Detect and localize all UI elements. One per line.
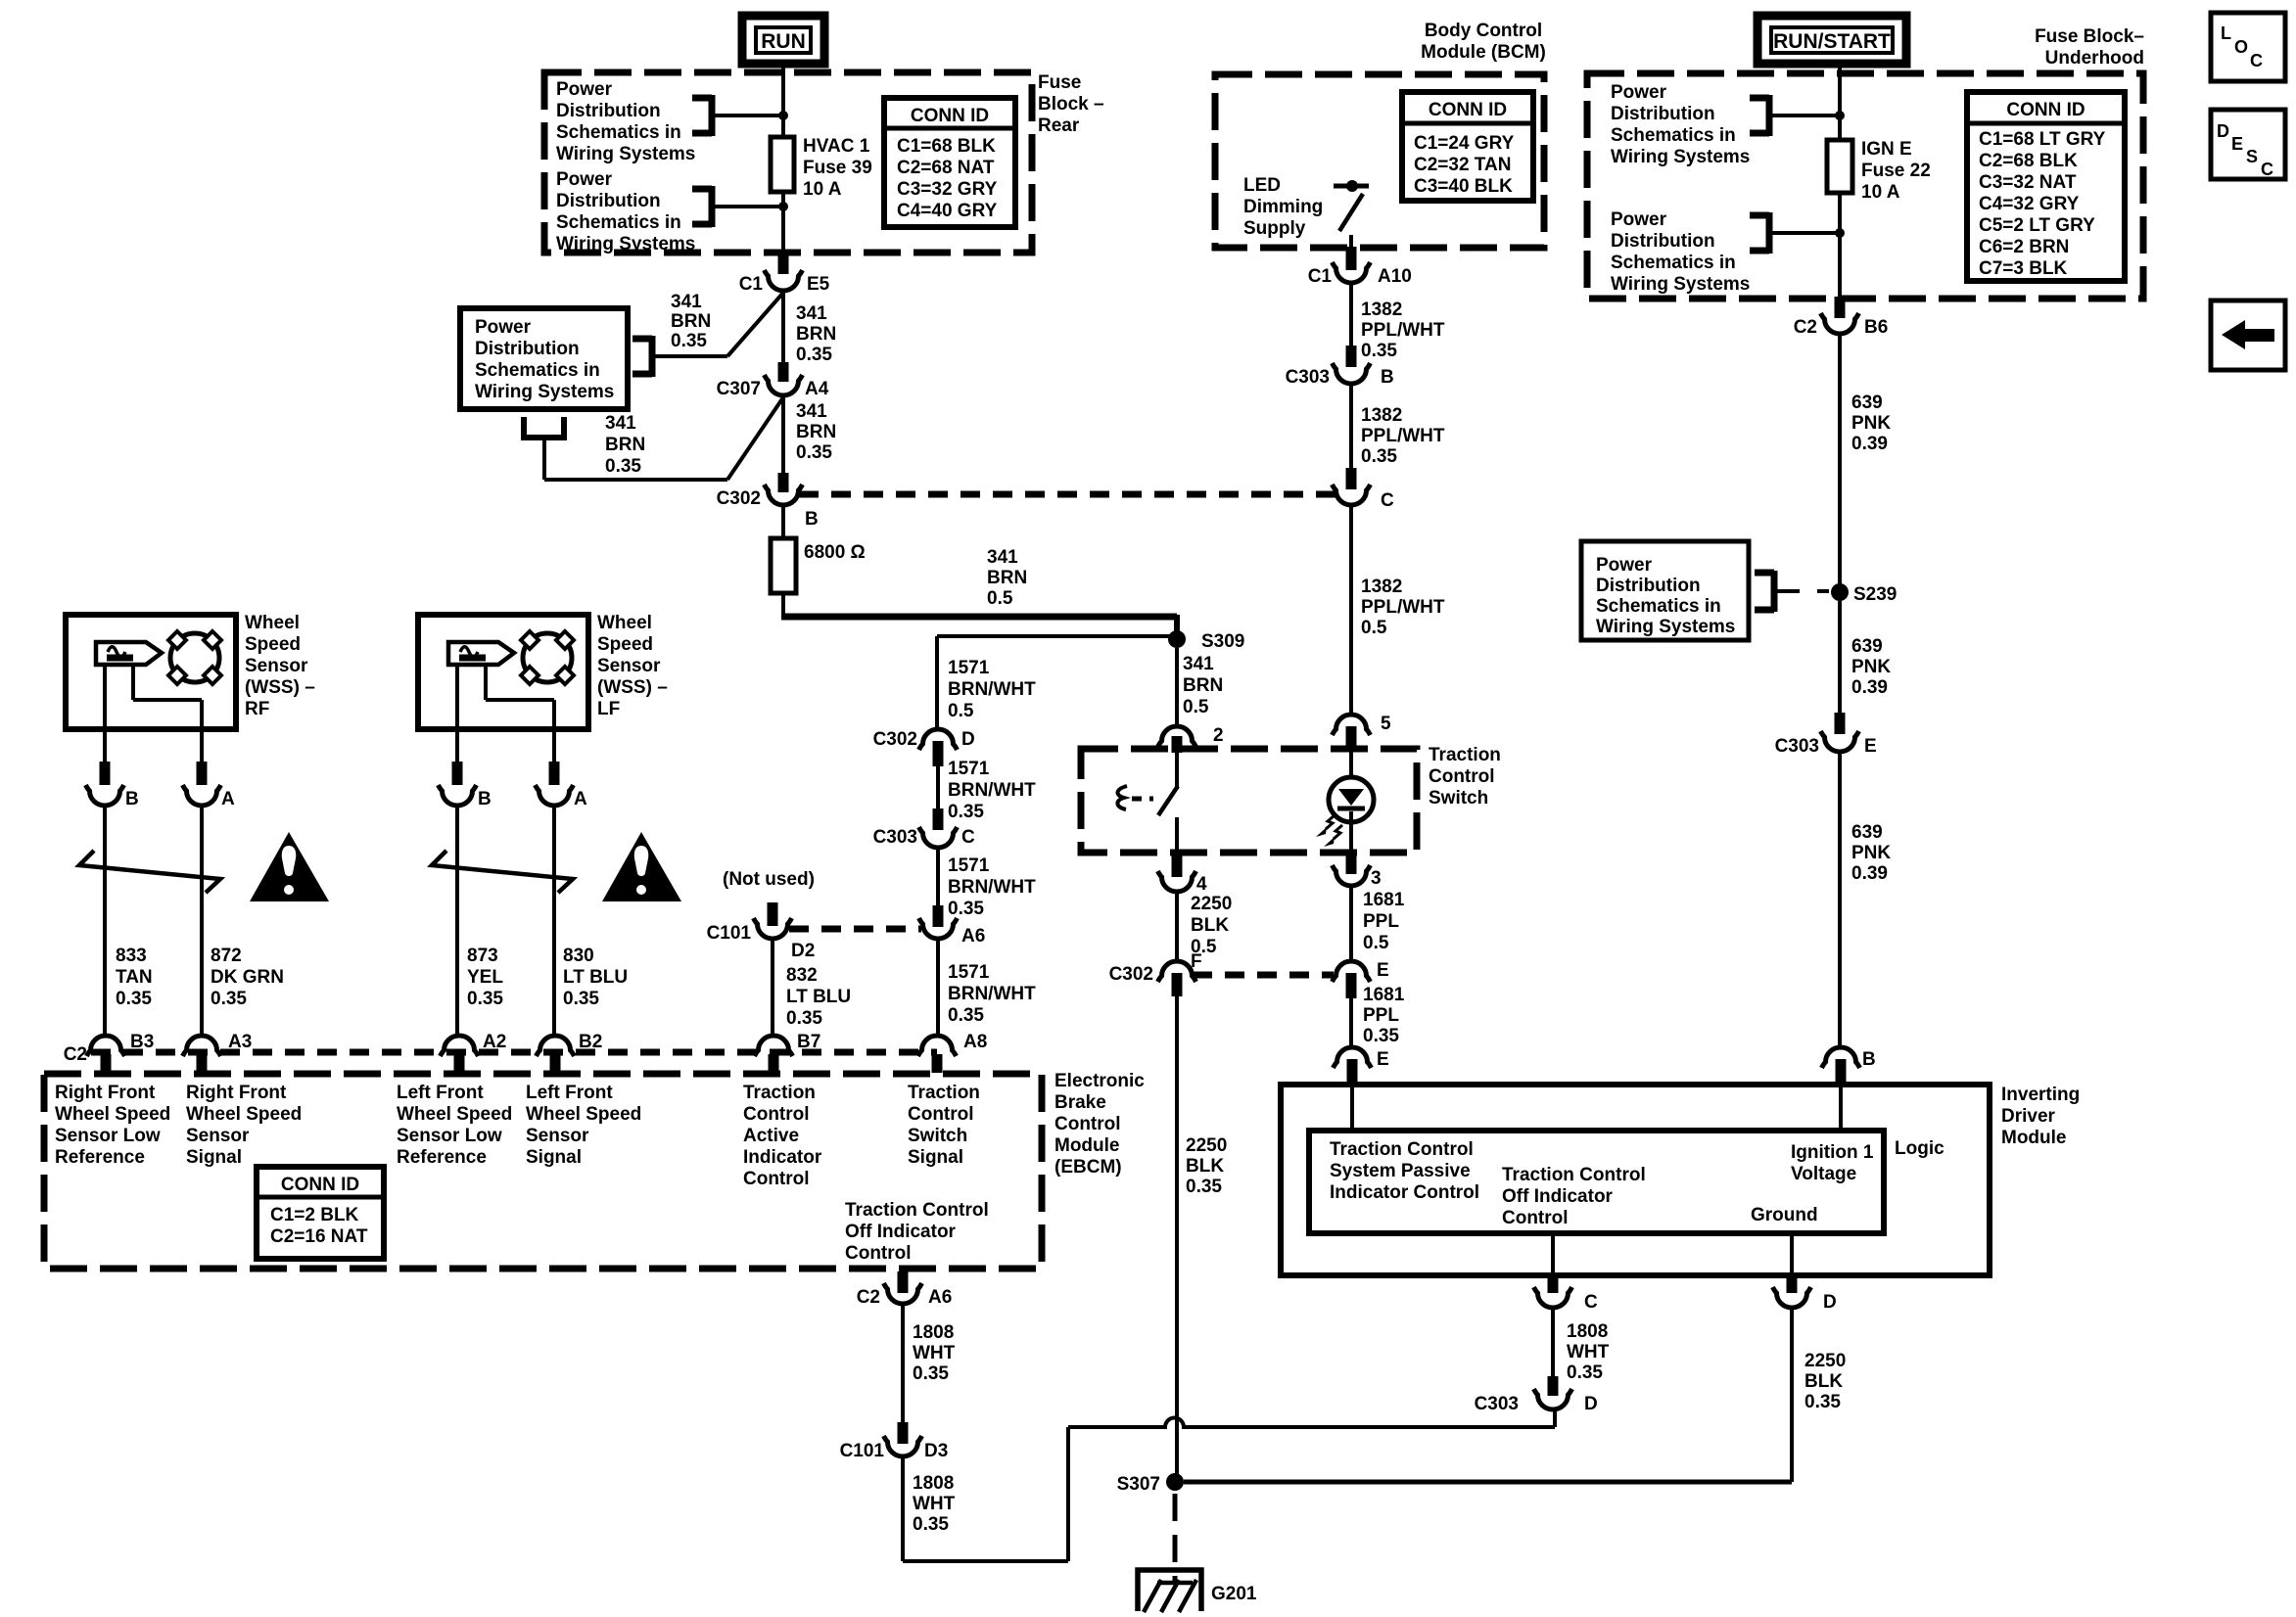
- svg-text:2: 2: [1213, 725, 1224, 746]
- svg-text:Power: Power: [1596, 555, 1653, 576]
- svg-text:C: C: [1381, 490, 1394, 511]
- svg-text:RUN: RUN: [761, 30, 806, 53]
- svg-text:C2=68 BLK: C2=68 BLK: [1979, 151, 2078, 171]
- svg-text:2250: 2250: [1191, 894, 1232, 914]
- svg-text:D: D: [961, 729, 975, 750]
- svg-text:G201: G201: [1211, 1584, 1257, 1604]
- svg-text:S239: S239: [1853, 584, 1897, 605]
- svg-text:0.35: 0.35: [1361, 446, 1397, 467]
- svg-text:C6=2 BRN: C6=2 BRN: [1979, 237, 2069, 257]
- svg-text:1681: 1681: [1363, 890, 1405, 910]
- svg-text:Wheel: Wheel: [245, 613, 300, 633]
- svg-text:Sensor Low: Sensor Low: [397, 1126, 502, 1146]
- svg-text:B6: B6: [1864, 317, 1888, 338]
- svg-text:C303: C303: [1286, 367, 1330, 388]
- wire WSS RF pin A: [131, 665, 135, 700]
- node RUN/START (ignition feed): [1757, 16, 1906, 64]
- wire 1382 PPL/WHT 0.5 C to pin 5: [1349, 506, 1353, 716]
- svg-text:B: B: [125, 789, 139, 809]
- svg-text:830: 830: [563, 946, 594, 966]
- svg-text:A3: A3: [228, 1032, 252, 1052]
- svg-text:Wheel Speed: Wheel Speed: [55, 1104, 170, 1125]
- splice S239: [1831, 583, 1849, 601]
- svg-text:833: 833: [116, 946, 147, 966]
- svg-text:A6: A6: [928, 1287, 952, 1308]
- svg-text:Distribution: Distribution: [556, 101, 661, 121]
- svg-text:C2: C2: [64, 1044, 87, 1065]
- svg-text:Traction: Traction: [743, 1083, 816, 1103]
- wire S309 branch to C302-D: [937, 634, 1177, 638]
- svg-text:B3: B3: [130, 1032, 154, 1052]
- wire 341 BRN 0.5 resistor to S309: [781, 593, 785, 615]
- svg-text:Fuse 39: Fuse 39: [803, 158, 872, 178]
- svg-text:1571: 1571: [948, 962, 990, 983]
- wire 639 PNK 0.39 E to IDM B: [1838, 753, 1842, 1046]
- node RUN (ignition feed): [742, 16, 824, 64]
- svg-text:(EBCM): (EBCM): [1054, 1157, 1122, 1178]
- svg-text:0.35: 0.35: [913, 1514, 949, 1535]
- wire WSS LF pin B: [455, 665, 459, 762]
- svg-text:341: 341: [671, 292, 702, 312]
- svg-text:RUN/START: RUN/START: [1773, 30, 1891, 53]
- connector pin 2 (traction control switch): [1158, 726, 1196, 747]
- svg-text:C1: C1: [1308, 266, 1333, 287]
- svg-text:LF: LF: [597, 699, 620, 719]
- connector C302 pin F: [1158, 961, 1196, 982]
- svg-text:Control: Control: [845, 1243, 912, 1264]
- svg-text:Sensor: Sensor: [186, 1126, 250, 1146]
- connector C307 pin A4: [778, 362, 789, 382]
- svg-text:0.35: 0.35: [211, 989, 247, 1009]
- svg-text:O: O: [2234, 37, 2248, 57]
- svg-text:(WSS) –: (WSS) –: [597, 677, 668, 698]
- svg-text:Electronic: Electronic: [1054, 1071, 1145, 1091]
- svg-text:Indicator: Indicator: [743, 1147, 822, 1168]
- svg-text:Distribution: Distribution: [1611, 104, 1715, 124]
- svg-text:Reference: Reference: [397, 1147, 487, 1168]
- svg-text:0.35: 0.35: [913, 1363, 949, 1384]
- svg-text:Signal: Signal: [908, 1147, 963, 1168]
- svg-text:0.35: 0.35: [1567, 1363, 1603, 1383]
- svg-text:YEL: YEL: [467, 967, 503, 988]
- wire pin 4 to C302-F: [1175, 893, 1179, 963]
- svg-text:1382: 1382: [1361, 577, 1402, 597]
- svg-text:Signal: Signal: [526, 1147, 582, 1168]
- wire fuse 39 to connector C1-E5: [781, 192, 785, 254]
- svg-text:Driver: Driver: [2001, 1106, 2056, 1127]
- svg-text:C7=3 BLK: C7=3 BLK: [1979, 258, 2068, 279]
- junction dot: [778, 202, 788, 211]
- svg-text:Rear: Rear: [1038, 115, 1080, 136]
- svg-text:0.35: 0.35: [796, 345, 832, 365]
- svg-text:Schematics in: Schematics in: [1596, 596, 1721, 617]
- svg-text:PPL: PPL: [1363, 911, 1399, 932]
- sensor pickup icon WSS LF: [448, 642, 514, 665]
- svg-text:C1=68 LT GRY: C1=68 LT GRY: [1979, 129, 2106, 150]
- svg-text:0.35: 0.35: [116, 989, 152, 1009]
- svg-text:CONN ID: CONN ID: [281, 1175, 359, 1195]
- svg-text:Sensor: Sensor: [526, 1126, 589, 1146]
- svg-text:Switch: Switch: [1429, 788, 1488, 808]
- svg-text:C: C: [2261, 160, 2273, 179]
- svg-text:1382: 1382: [1361, 405, 1402, 426]
- svg-text:BRN/WHT: BRN/WHT: [948, 679, 1036, 700]
- svg-text:Right Front: Right Front: [55, 1083, 156, 1103]
- svg-text:Traction: Traction: [1429, 745, 1501, 765]
- connector pin 3: [1346, 853, 1357, 874]
- svg-text:CONN ID: CONN ID: [911, 106, 989, 126]
- svg-text:Wheel Speed: Wheel Speed: [186, 1104, 302, 1125]
- svg-text:C3=32 GRY: C3=32 GRY: [897, 179, 998, 200]
- wire WSS LF B down: [455, 807, 459, 1036]
- connector C2 pin A8: [918, 1036, 957, 1056]
- svg-text:Fuse 22: Fuse 22: [1861, 161, 1931, 181]
- ground G201: [1138, 1570, 1201, 1611]
- svg-text:0.35: 0.35: [1361, 341, 1397, 361]
- bracket power distribution box: [633, 336, 652, 343]
- svg-text:Wheel Speed: Wheel Speed: [397, 1104, 512, 1125]
- svg-text:Module (BCM): Module (BCM): [1421, 42, 1546, 63]
- bracket to power distribution note 1: [1750, 95, 1769, 102]
- svg-text:0.35: 0.35: [605, 456, 641, 477]
- wire 832 LT BLU 0.35 D2 to B7: [771, 940, 774, 1036]
- svg-text:0.35: 0.35: [948, 899, 984, 919]
- tone ring icon WSS LF: [523, 633, 572, 682]
- LOC reference box: [2211, 13, 2285, 81]
- LED lamp (switch illumination): [1349, 748, 1353, 777]
- svg-text:BRN: BRN: [671, 311, 711, 332]
- svg-text:0.35: 0.35: [1363, 1026, 1399, 1046]
- svg-text:Fuse Block–: Fuse Block–: [2035, 26, 2144, 47]
- svg-text:Brake: Brake: [1054, 1092, 1106, 1113]
- wire fuse 22 down: [1838, 193, 1842, 299]
- connector C302 pin B: [778, 473, 789, 492]
- svg-text:D2: D2: [791, 941, 815, 961]
- twisted pair symbol WSS LF: [432, 851, 573, 893]
- svg-text:872: 872: [211, 946, 242, 966]
- svg-text:System Passive: System Passive: [1330, 1161, 1471, 1181]
- svg-text:639: 639: [1851, 822, 1883, 843]
- traction control switch dashed box: [1081, 749, 1417, 853]
- svg-text:Schematics in: Schematics in: [556, 122, 681, 143]
- EBCM dashed box: [44, 1074, 1042, 1269]
- svg-text:BLK: BLK: [1804, 1371, 1843, 1392]
- CONN ID table EBCM: [257, 1167, 384, 1259]
- svg-text:C4=32 GRY: C4=32 GRY: [1979, 194, 2080, 214]
- connector line C302 dashed F to E: [1193, 972, 1334, 979]
- svg-text:0.35: 0.35: [467, 989, 503, 1009]
- wire pin E into logic: [1350, 1085, 1354, 1131]
- twisted pair symbol WSS RF: [79, 851, 220, 893]
- svg-text:C302: C302: [717, 488, 761, 509]
- wire to resistor: [781, 506, 785, 538]
- svg-text:CONN ID: CONN ID: [1429, 100, 1507, 120]
- DESC reference box: [2211, 110, 2285, 179]
- svg-text:LT BLU: LT BLU: [563, 967, 628, 988]
- tone ring icon WSS RF: [170, 633, 219, 682]
- svg-text:0.5: 0.5: [1363, 933, 1389, 953]
- svg-text:C302: C302: [1109, 964, 1153, 985]
- bracket under power distribution box: [521, 417, 527, 438]
- svg-text:C: C: [2250, 51, 2263, 70]
- wire 2250 BLK 0.35 F to S307: [1175, 996, 1179, 1474]
- svg-text:341: 341: [605, 413, 636, 434]
- svg-text:Speed: Speed: [597, 634, 653, 655]
- svg-text:341: 341: [1183, 654, 1214, 674]
- connector WSS RF pin A: [197, 762, 208, 785]
- svg-text:TAN: TAN: [116, 967, 153, 988]
- svg-text:Voltage: Voltage: [1791, 1164, 1856, 1184]
- svg-text:A8: A8: [963, 1032, 987, 1052]
- svg-text:D: D: [1584, 1394, 1598, 1414]
- svg-text:0.39: 0.39: [1851, 863, 1888, 884]
- wire WSS RF A down: [200, 807, 204, 1036]
- wire hop over 2250 BLK wire: [1068, 1418, 1555, 1428]
- svg-text:Dimming: Dimming: [1243, 197, 1323, 217]
- wire logic to pin D: [1790, 1233, 1794, 1277]
- CONN ID table fuse block rear: [884, 98, 1015, 227]
- svg-text:S: S: [2246, 147, 2258, 166]
- connector C303 pin C: [933, 808, 944, 830]
- svg-text:Off Indicator: Off Indicator: [1502, 1186, 1614, 1207]
- wire 1571 BRN/WHT 0.35 C to A6: [936, 849, 940, 908]
- svg-text:HVAC 1: HVAC 1: [803, 136, 870, 157]
- svg-text:639: 639: [1851, 393, 1883, 413]
- bracket to power distribution note 1: [692, 95, 712, 102]
- wire 1808 WHT 0.35 D3 routing to C303-D: [901, 1457, 905, 1561]
- svg-text:C1=24 GRY: C1=24 GRY: [1414, 133, 1515, 154]
- svg-text:Wiring Systems: Wiring Systems: [1611, 274, 1750, 295]
- svg-text:Schematics in: Schematics in: [475, 360, 600, 381]
- svg-text:1808: 1808: [913, 1322, 954, 1343]
- svg-text:Power: Power: [475, 317, 532, 338]
- connector C101 pin D2: [754, 918, 792, 939]
- svg-text:Fuse: Fuse: [1038, 72, 1081, 93]
- svg-text:CONN ID: CONN ID: [2006, 100, 2085, 120]
- svg-text:A: A: [221, 789, 235, 809]
- connector C303 pin B: [1346, 346, 1357, 367]
- svg-text:Traction: Traction: [908, 1083, 980, 1103]
- connector C1 pin E5: [778, 251, 789, 274]
- svg-text:Schematics in: Schematics in: [1611, 253, 1736, 273]
- wire dashed S307 to ground: [1173, 1494, 1178, 1584]
- wheel speed sensor WSS RF box: [66, 615, 236, 729]
- svg-text:C: C: [961, 827, 975, 848]
- wire 1571 BRN/WHT 0.35 D to C303-C: [936, 766, 940, 812]
- wire S309 to pin 2: [1175, 648, 1179, 726]
- svg-text:Module: Module: [2001, 1128, 2067, 1148]
- svg-text:PNK: PNK: [1851, 657, 1891, 677]
- svg-text:0.35: 0.35: [563, 989, 599, 1009]
- svg-text:Power: Power: [1611, 209, 1667, 230]
- logic box: [1309, 1131, 1884, 1233]
- splice S309: [1168, 630, 1186, 648]
- svg-text:Distribution: Distribution: [475, 339, 580, 359]
- svg-text:Distribution: Distribution: [556, 191, 661, 211]
- svg-text:(WSS) –: (WSS) –: [245, 677, 315, 698]
- svg-text:10 A: 10 A: [1861, 182, 1900, 203]
- wire 2250 BLK D to S307: [1790, 1309, 1794, 1482]
- svg-text:1571: 1571: [948, 759, 990, 779]
- svg-text:C3=40 BLK: C3=40 BLK: [1414, 176, 1513, 197]
- svg-text:Control: Control: [743, 1104, 810, 1125]
- svg-text:Block –: Block –: [1038, 94, 1104, 115]
- power distribution schematics box: [460, 308, 628, 409]
- svg-text:2250: 2250: [1804, 1351, 1846, 1371]
- svg-text:C5=2 LT GRY: C5=2 LT GRY: [1979, 215, 2095, 236]
- svg-text:Wiring Systems: Wiring Systems: [556, 144, 695, 164]
- svg-text:341: 341: [987, 547, 1018, 568]
- svg-text:Left Front: Left Front: [526, 1083, 613, 1103]
- svg-text:PNK: PNK: [1851, 843, 1891, 863]
- svg-text:BRN/WHT: BRN/WHT: [948, 877, 1036, 898]
- svg-text:Inverting: Inverting: [2001, 1085, 2080, 1105]
- svg-text:0.35: 0.35: [1186, 1177, 1222, 1197]
- connector pin E (inverting driver module): [1334, 1047, 1372, 1068]
- switch blade and detent: [1175, 753, 1179, 789]
- wire 341 BRN 0.35 A4 to C302-B: [781, 396, 785, 475]
- connector line C2 dashed (EBCM): [91, 1049, 937, 1056]
- svg-text:A4: A4: [805, 379, 829, 399]
- svg-text:Active: Active: [743, 1126, 799, 1146]
- svg-text:6800 Ω: 6800 Ω: [804, 542, 866, 563]
- connector C101 pin D3: [898, 1422, 909, 1444]
- wire WSS RF B down: [103, 807, 107, 1036]
- wire WSS LF A down: [552, 807, 556, 1036]
- svg-text:E: E: [2231, 134, 2243, 154]
- resistor 6800 ohm: [771, 538, 796, 593]
- svg-text:BLK: BLK: [1186, 1156, 1224, 1177]
- svg-text:C303: C303: [1775, 736, 1819, 757]
- svg-text:Speed: Speed: [245, 634, 301, 655]
- connector C303 pin E: [1835, 713, 1846, 734]
- svg-text:0.35: 0.35: [671, 331, 707, 351]
- wire 1382 PPL/WHT 0.35 A10 to C303-B: [1349, 284, 1353, 349]
- svg-text:BLK: BLK: [1191, 915, 1229, 936]
- svg-text:C: C: [1584, 1292, 1598, 1313]
- warning triangle WSS RF: [250, 832, 329, 901]
- connector pin C: [1548, 1273, 1559, 1293]
- svg-text:C1: C1: [739, 274, 764, 295]
- svg-text:832: 832: [786, 965, 818, 986]
- junction dot: [778, 111, 788, 120]
- svg-text:0.35: 0.35: [948, 1005, 984, 1026]
- connector C2 pin B6: [1835, 297, 1846, 318]
- svg-text:0.5: 0.5: [987, 588, 1013, 609]
- svg-text:C302: C302: [873, 729, 917, 750]
- connector C2 pin B7: [755, 1036, 793, 1056]
- svg-text:Wiring Systems: Wiring Systems: [475, 382, 614, 402]
- svg-text:S307: S307: [1117, 1474, 1160, 1495]
- svg-text:C1=2 BLK: C1=2 BLK: [270, 1205, 359, 1225]
- wire 341 BRN branch 2 (diagonal) from power distribution box: [727, 397, 783, 480]
- junction dot: [1835, 111, 1845, 120]
- connector C2 pin A6 (EBCM bottom): [898, 1271, 909, 1293]
- fuse block - rear dashed box: [544, 72, 1032, 253]
- connector pin B (inverting driver module): [1822, 1047, 1860, 1068]
- svg-text:Wiring Systems: Wiring Systems: [1596, 617, 1735, 637]
- svg-text:873: 873: [467, 946, 498, 966]
- connector WSS LF pin B: [452, 762, 463, 785]
- svg-text:Module: Module: [1054, 1135, 1120, 1156]
- svg-text:B7: B7: [797, 1032, 820, 1052]
- svg-text:C1=68 BLK: C1=68 BLK: [897, 136, 996, 157]
- svg-text:PPL/WHT: PPL/WHT: [1361, 426, 1445, 446]
- connector WSS RF pin B: [100, 762, 111, 785]
- bracket to power distribution note 2: [1750, 212, 1769, 219]
- wire 639 PNK 0.39 S239 to C303-E: [1838, 601, 1842, 716]
- svg-text:0.5: 0.5: [1361, 618, 1387, 638]
- svg-text:Control: Control: [743, 1169, 810, 1189]
- svg-text:1571: 1571: [948, 658, 990, 678]
- svg-text:LED: LED: [1243, 175, 1281, 196]
- wire pin B into logic: [1839, 1085, 1843, 1131]
- connector C1 pin A10: [1346, 247, 1357, 270]
- wire 1681 PPL 0.35 E to IDM E: [1349, 998, 1353, 1046]
- svg-text:S309: S309: [1201, 631, 1244, 652]
- LED dimming supply switch symbol: [1334, 184, 1369, 189]
- svg-text:C101: C101: [840, 1441, 885, 1461]
- svg-text:Ignition 1: Ignition 1: [1791, 1142, 1874, 1163]
- connector pin 4: [1172, 855, 1183, 877]
- svg-text:Control: Control: [908, 1104, 974, 1125]
- svg-text:B: B: [1381, 367, 1394, 388]
- wire EBCM traction control off indicator output: [901, 1269, 905, 1274]
- svg-text:Indicator Control: Indicator Control: [1330, 1182, 1479, 1203]
- LED light arrows: [1326, 815, 1335, 829]
- svg-text:Signal: Signal: [186, 1147, 242, 1168]
- connector line C302 dashed to BCM pin C: [799, 491, 1335, 498]
- svg-text:C2: C2: [857, 1287, 880, 1308]
- wire RUN/START to fuse 22: [1838, 64, 1842, 140]
- svg-text:0.5: 0.5: [948, 701, 974, 721]
- svg-text:Power: Power: [556, 79, 613, 100]
- svg-text:Power: Power: [1611, 82, 1667, 103]
- wheel speed sensor WSS LF box: [418, 615, 588, 729]
- svg-text:Schematics in: Schematics in: [556, 212, 681, 233]
- svg-text:A2: A2: [483, 1032, 506, 1052]
- svg-text:0.35: 0.35: [1804, 1392, 1841, 1412]
- warning triangle WSS LF: [602, 832, 681, 901]
- CONN ID table BCM: [1402, 92, 1533, 201]
- bracket to power distribution note 2: [692, 186, 712, 193]
- svg-text:639: 639: [1851, 636, 1883, 657]
- wire 341 BRN 0.35 E5 to C307-A4: [781, 292, 785, 364]
- svg-text:10 A: 10 A: [803, 179, 842, 200]
- svg-text:C307: C307: [717, 379, 761, 399]
- svg-text:C303: C303: [873, 827, 917, 848]
- svg-text:IGN E: IGN E: [1861, 139, 1912, 160]
- svg-text:A6: A6: [961, 926, 985, 947]
- svg-text:E5: E5: [807, 274, 830, 295]
- svg-text:Supply: Supply: [1243, 218, 1306, 239]
- fuse F22 IGN E 10A: [1827, 140, 1852, 193]
- connector C2 pin B3: [87, 1036, 125, 1056]
- svg-text:Distribution: Distribution: [1611, 231, 1715, 252]
- svg-text:1808: 1808: [913, 1473, 954, 1494]
- svg-text:BRN: BRN: [987, 568, 1027, 588]
- svg-text:Logic: Logic: [1895, 1138, 1945, 1159]
- wire 1382 PPL/WHT 0.35 B to C302-C: [1349, 385, 1353, 472]
- connector C302 pin E: [1333, 961, 1371, 982]
- svg-text:Right Front: Right Front: [186, 1083, 287, 1103]
- bracket power distribution right: [1755, 570, 1774, 577]
- svg-text:1681: 1681: [1363, 985, 1405, 1005]
- connector C2 pin A2: [441, 1036, 479, 1056]
- svg-text:D: D: [1823, 1292, 1837, 1313]
- connector pin D: [1787, 1273, 1798, 1293]
- BCM dashed box: [1215, 74, 1544, 248]
